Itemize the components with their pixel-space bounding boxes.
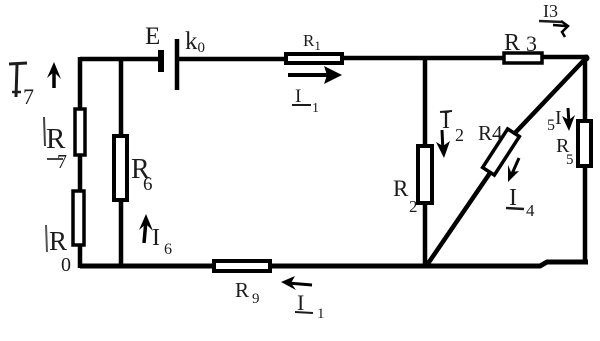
label R6 bbox=[131, 154, 153, 195]
svg-text:0: 0 bbox=[61, 254, 71, 276]
wire: left branch, node A down to bottom-left corner bbox=[78, 57, 83, 268]
svg-text:R1: R1 bbox=[303, 31, 321, 53]
wire: R3 to top-right corner node C bbox=[540, 55, 588, 60]
current arrow I3 (small, pointing right) bbox=[553, 21, 568, 37]
svg-text:5: 5 bbox=[547, 117, 555, 134]
wire: battery positive plate to resistor R1 bbox=[177, 57, 287, 62]
resistor R5 bbox=[578, 121, 591, 166]
current arrow I4 (down-left) bbox=[508, 158, 519, 182]
resistor R4 (on diagonal) bbox=[483, 129, 520, 175]
svg-text:2: 2 bbox=[455, 125, 464, 145]
current arrow I2 (down) bbox=[436, 130, 450, 158]
label I2 with underline bbox=[440, 108, 464, 145]
label R3 bbox=[504, 30, 537, 56]
label R9 bbox=[235, 278, 260, 307]
wire: second left branch through R6 bbox=[119, 57, 124, 268]
current arrow I1 (bottom, pointing left) bbox=[281, 276, 312, 290]
wire: R1 to node B (top middle junction) to R3 bbox=[340, 56, 506, 61]
svg-text:6: 6 bbox=[143, 174, 153, 195]
svg-text:R4: R4 bbox=[478, 121, 503, 145]
svg-text:2: 2 bbox=[409, 197, 418, 216]
svg-text:E: E bbox=[145, 23, 160, 50]
label R5 bbox=[556, 135, 574, 168]
current arrow I5 (down) bbox=[562, 108, 575, 131]
svg-text:R: R bbox=[49, 226, 67, 256]
svg-text:7: 7 bbox=[57, 151, 67, 173]
current arrow I7 (up) bbox=[47, 62, 61, 88]
current arrow I6 (up) bbox=[139, 214, 153, 243]
svg-text:R: R bbox=[393, 176, 409, 201]
svg-text:k0: k0 bbox=[185, 28, 205, 56]
resistor R3 bbox=[504, 53, 542, 63]
label I3 with underline bbox=[539, 1, 563, 22]
svg-text:3: 3 bbox=[526, 31, 537, 56]
label I6 bbox=[152, 225, 172, 258]
svg-text:I3: I3 bbox=[543, 1, 558, 21]
label I1 (top) bbox=[292, 86, 319, 116]
wire: middle vertical branch through R2 (node B to bottom junction D) bbox=[423, 58, 428, 266]
svg-text:7: 7 bbox=[23, 84, 34, 109]
svg-text:6: 6 bbox=[164, 241, 172, 258]
svg-text:I: I bbox=[555, 107, 562, 129]
resistor R7 bbox=[75, 109, 85, 155]
svg-text:1: 1 bbox=[317, 306, 325, 322]
label R7 bbox=[44, 117, 67, 173]
svg-text:5: 5 bbox=[566, 152, 574, 168]
svg-text:I: I bbox=[295, 86, 301, 107]
label R2 bbox=[393, 176, 418, 216]
svg-text:4: 4 bbox=[526, 201, 535, 220]
label I7 with overbar bbox=[9, 63, 34, 109]
battery E negative (short) plate bbox=[158, 50, 164, 72]
label I4 with underline bbox=[506, 185, 535, 220]
wire: top bus, node A to battery negative plate bbox=[80, 57, 159, 62]
battery E positive (long) plate bbox=[175, 39, 180, 90]
resistor R0 bbox=[73, 191, 84, 245]
junction node D (bottom, diagonal meets bus) bbox=[424, 261, 431, 268]
svg-text:R: R bbox=[504, 30, 520, 56]
resistor R2 bbox=[418, 146, 432, 203]
resistor R1 bbox=[286, 54, 342, 63]
svg-text:R: R bbox=[235, 278, 249, 302]
label I1 (bottom) bbox=[295, 290, 325, 322]
svg-text:1: 1 bbox=[312, 101, 319, 116]
wire: diagonal branch from junction D to top-right corner (through R4) bbox=[427, 58, 586, 265]
label R0 bbox=[46, 225, 71, 276]
wire: bottom bus from bottom-left corner to bottom-right corner bbox=[80, 262, 588, 266]
svg-text:9: 9 bbox=[252, 291, 260, 307]
resistor R6 bbox=[114, 136, 127, 200]
junction node at top-right corner bbox=[583, 55, 590, 62]
wire: right branch, top-right corner through R5 to bottom-right bbox=[583, 57, 588, 264]
resistor R9 bbox=[214, 261, 270, 271]
current arrow I1 (top, pointing right) bbox=[288, 66, 342, 84]
label I5 (subscript 5 at left) bbox=[547, 107, 562, 134]
svg-text:I: I bbox=[152, 225, 160, 251]
